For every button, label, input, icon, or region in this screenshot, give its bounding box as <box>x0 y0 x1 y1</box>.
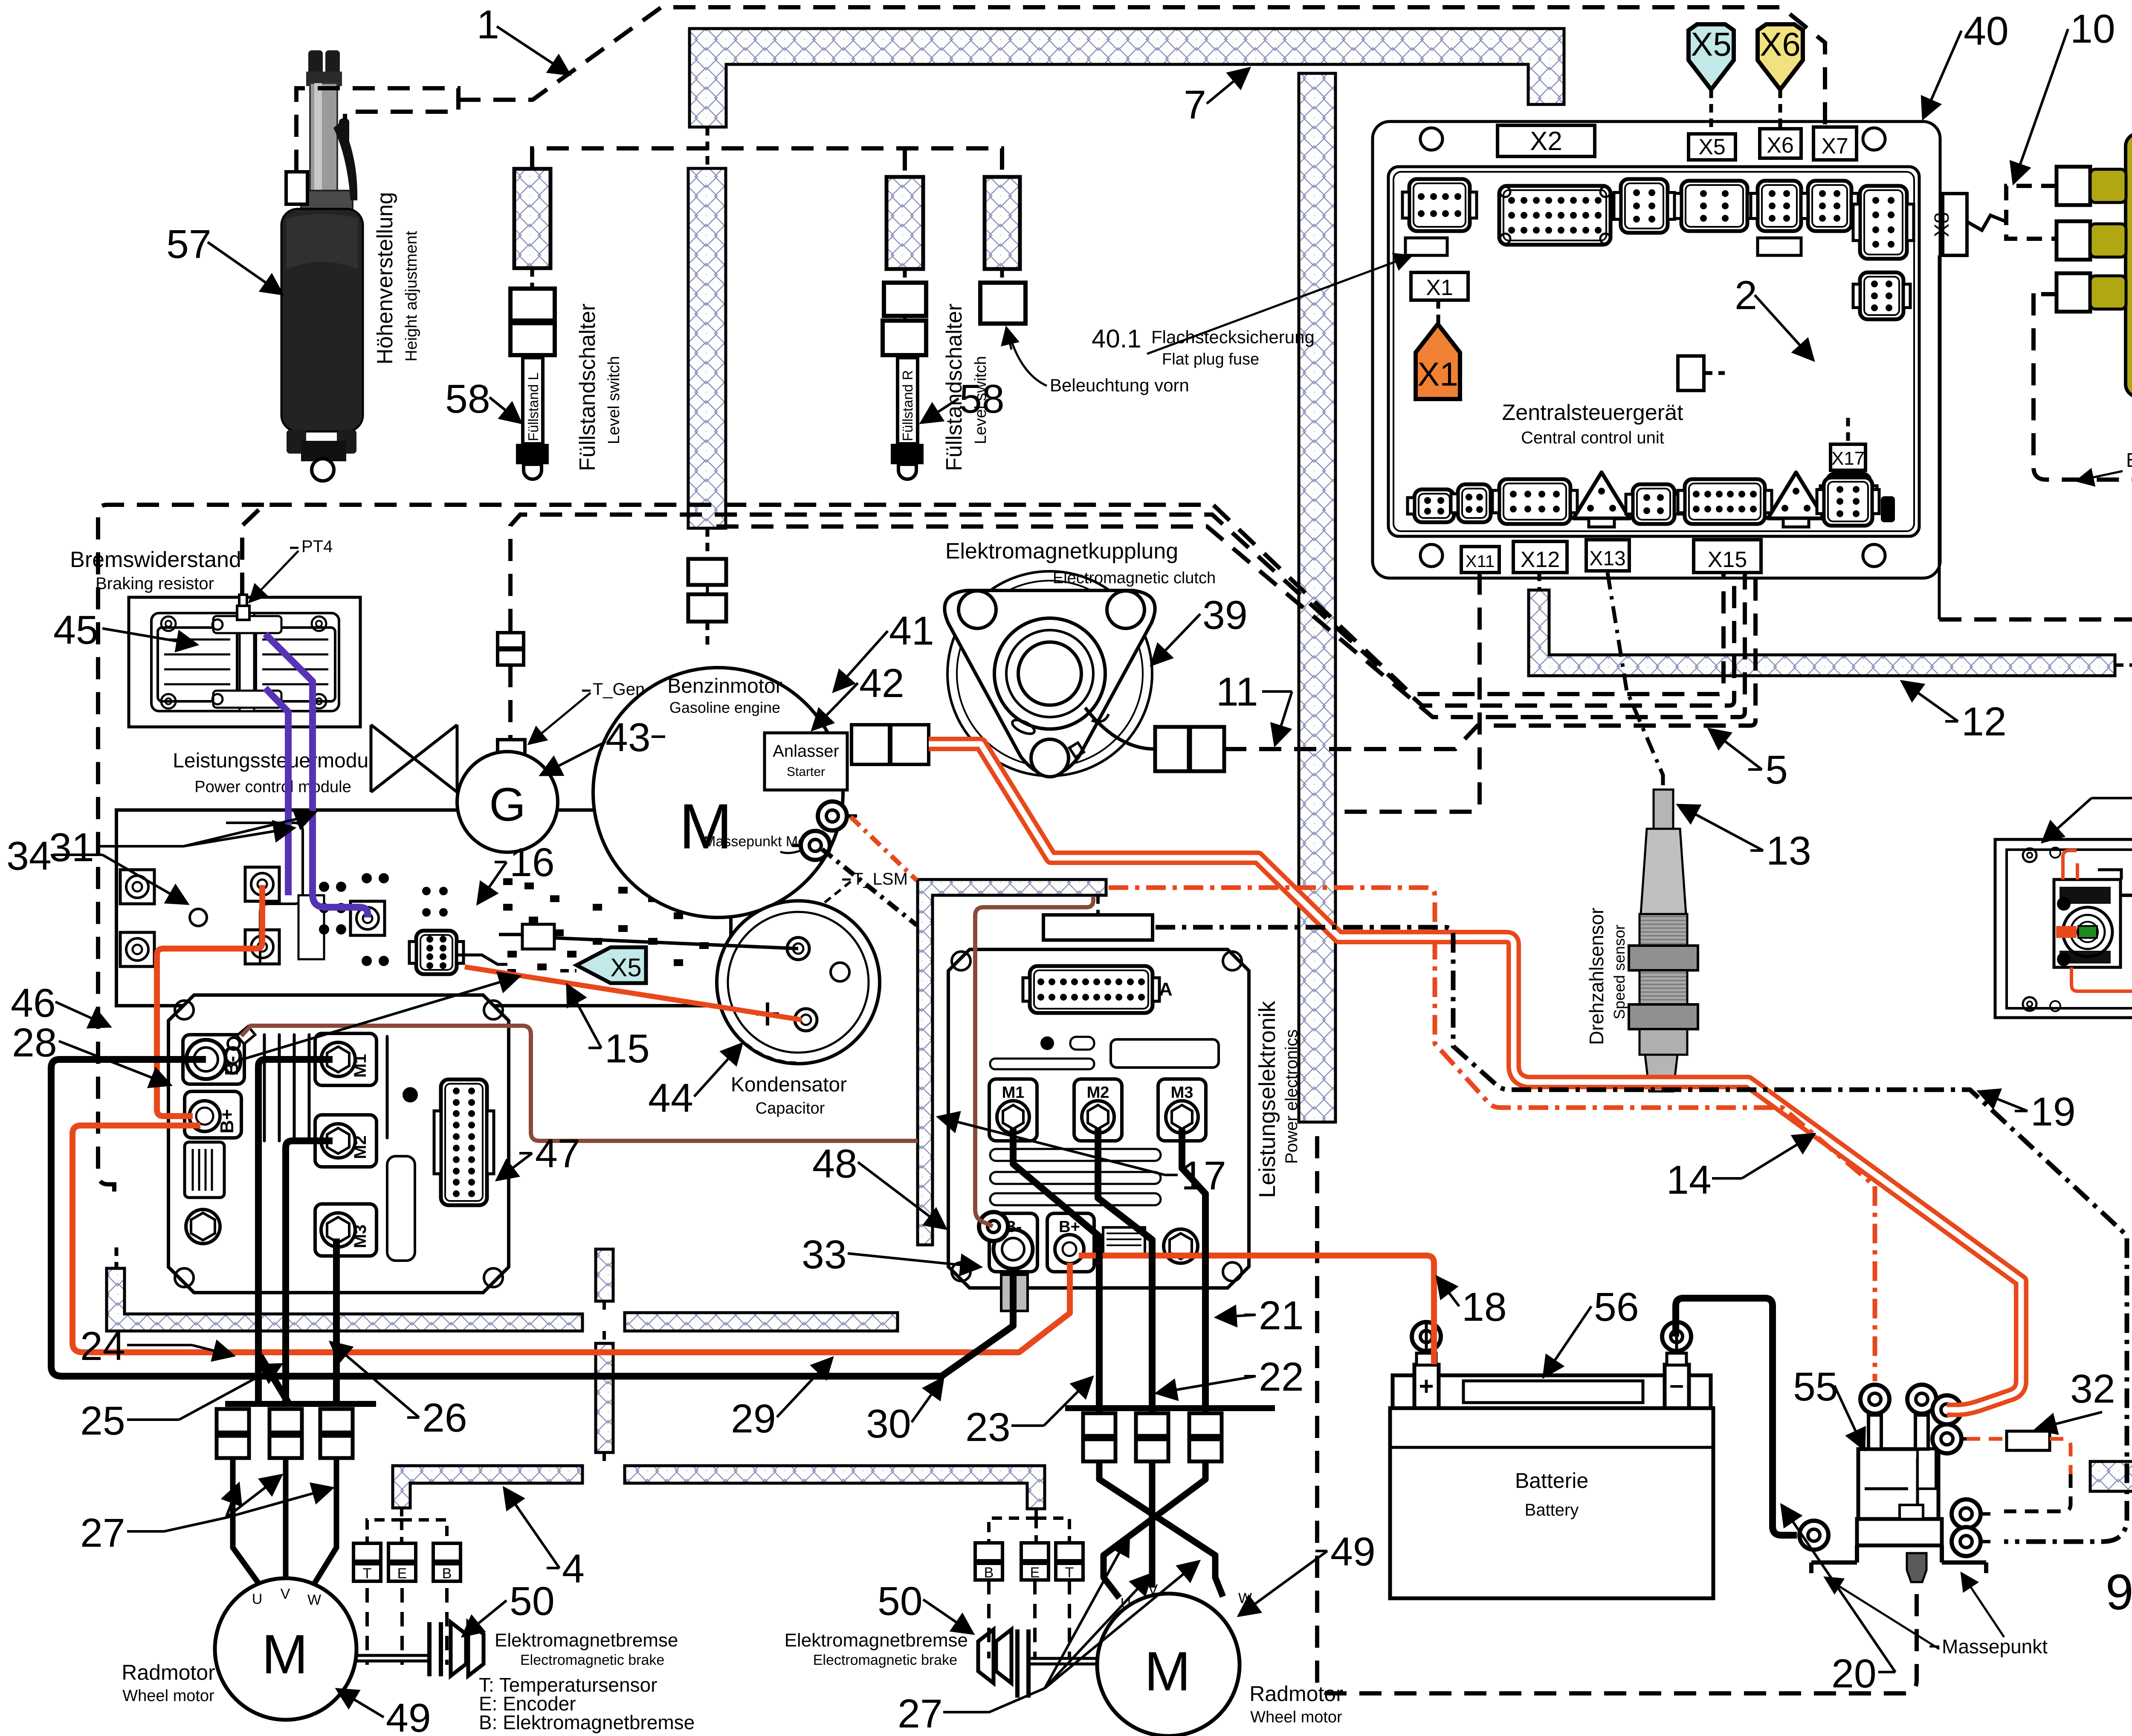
X8 label box <box>1943 194 1967 255</box>
level switch R body <box>884 283 926 316</box>
svg-text:Wheel motor: Wheel motor <box>122 1687 214 1705</box>
wire X11 to conduit <box>1335 573 1480 812</box>
svg-text:39: 39 <box>1202 593 1248 638</box>
svg-text:Kondensator: Kondensator <box>731 1073 847 1096</box>
svg-text:Bremswiderstand: Bremswiderstand <box>70 547 241 572</box>
svg-text:12: 12 <box>1961 699 2007 744</box>
anlasser starter 42 <box>765 733 847 790</box>
coupling bowtie <box>371 725 457 792</box>
svg-text:Battery: Battery <box>1525 1501 1579 1519</box>
svg-text:B: B <box>984 1565 994 1581</box>
svg-text:56: 56 <box>1594 1285 1639 1330</box>
svg-text:X17: X17 <box>1831 448 1865 469</box>
left wheel motor 49 <box>215 1578 356 1720</box>
fuse 9 hatched <box>517 958 560 984</box>
central control unit 40 <box>1373 122 1940 578</box>
wire orange from battery plus <box>1079 1256 1434 1364</box>
svg-text:X12: X12 <box>1521 547 1560 572</box>
wire black dashed fuse to ring3 <box>2004 1474 2071 1511</box>
right motor bus bar <box>1065 1405 1275 1411</box>
wire X13 dash-dot to speed sensor <box>1608 573 1663 790</box>
wire 1 dashed route from actuator to unit <box>296 88 458 172</box>
left motor bus bar <box>225 1401 376 1407</box>
svg-text:7: 7 <box>1184 82 1206 127</box>
svg-text:14: 14 <box>1666 1157 1712 1203</box>
svg-text:X15: X15 <box>1708 547 1747 572</box>
2 chain small box <box>1678 356 1704 391</box>
svg-text:9: 9 <box>222 1038 244 1083</box>
svg-text:Benzinmotor: Benzinmotor <box>667 675 782 697</box>
svg-text:Füllstand L: Füllstand L <box>525 373 541 441</box>
wire X12 link <box>1538 573 1541 590</box>
wire black T_LSM capacitor <box>499 933 522 936</box>
wire orange dash-dot 17 <box>851 817 917 880</box>
crossing wires into right motor <box>1099 1461 1223 1597</box>
svg-text:43: 43 <box>605 715 651 760</box>
svg-text:26: 26 <box>422 1395 467 1441</box>
svg-text:W: W <box>1238 1590 1252 1606</box>
svg-text:M1: M1 <box>1002 1084 1025 1102</box>
B E T boxes right <box>975 1543 1002 1561</box>
controller 47 <box>168 995 509 1293</box>
T E B left dashed bus <box>367 1520 447 1543</box>
svg-text:Braking resistor: Braking resistor <box>96 574 214 593</box>
svg-text:23: 23 <box>965 1405 1011 1450</box>
level switch bus <box>532 148 1002 177</box>
svg-text:Flat plug fuse: Flat plug fuse <box>1162 350 1259 368</box>
X6 pentagon yellow <box>1758 24 1803 90</box>
svg-text:4: 4 <box>562 1546 585 1591</box>
svg-text:X13: X13 <box>1589 547 1625 570</box>
svg-text:X1: X1 <box>1426 275 1453 300</box>
svg-text:M3: M3 <box>1171 1084 1193 1102</box>
wire bus A from PT4 <box>242 505 1724 694</box>
left motor connector boxes <box>217 1409 249 1432</box>
svg-text:Level switch: Level switch <box>605 356 623 444</box>
svg-text:Batterie: Batterie <box>1515 1469 1588 1493</box>
brake right 50 mirrored <box>978 1629 1011 1683</box>
component 54 <box>1995 839 2132 1018</box>
X17 chain <box>1831 444 1865 470</box>
svg-text:Elektromagnetbremse: Elektromagnetbremse <box>495 1630 678 1651</box>
svg-text:9600241 Kawa: 9600241 Kawa <box>2106 1564 2132 1620</box>
X5 X6 X1 X17 links <box>1709 90 1713 133</box>
actuator connector box <box>286 172 307 204</box>
svg-text:Electromagnetic brake: Electromagnetic brake <box>520 1652 664 1668</box>
wires into left motor <box>233 1458 259 1584</box>
svg-text:M: M <box>1144 1640 1191 1702</box>
svg-text:Electromagnetic clutch: Electromagnetic clutch <box>1053 569 1216 587</box>
svg-text:X5: X5 <box>610 953 641 982</box>
conduit 4 lower right bar with leg <box>625 1466 1045 1509</box>
svg-text:49: 49 <box>1330 1529 1376 1574</box>
svg-text:Höhenverstellung: Höhenverstellung <box>373 192 397 365</box>
wire orange 28 module to B+ <box>157 885 262 1116</box>
X5 pentagon cyan <box>1689 24 1734 90</box>
svg-text:Starter: Starter <box>787 765 825 779</box>
svg-text:M2: M2 <box>351 1135 370 1159</box>
wire antenna link dashed <box>2034 292 2057 296</box>
wire purple 1 from braking resistor <box>265 634 368 917</box>
svg-text:T: T <box>1065 1565 1074 1581</box>
level switch R hatched <box>886 177 923 269</box>
svg-text:Drehzahlsensor: Drehzahlsensor <box>1585 908 1608 1045</box>
clutch link boxes <box>1155 727 1189 771</box>
clutch 39 <box>947 571 1152 776</box>
svg-text:27: 27 <box>898 1691 943 1736</box>
actuator 57 height adjustment <box>308 50 323 84</box>
vertical conduit center <box>1299 73 1335 1122</box>
svg-text:Central control unit: Central control unit <box>1521 428 1664 447</box>
wire X6 long dashed left <box>98 505 264 1192</box>
level switch L body <box>510 289 555 321</box>
receiver 51 yellow <box>2126 133 2132 397</box>
small pin top left of 47 <box>237 1026 255 1044</box>
svg-text:T: T <box>363 1565 372 1582</box>
svg-text:25: 25 <box>80 1398 125 1444</box>
svg-text:X5: X5 <box>1691 25 1731 63</box>
wire orange dashed fuse 32 link <box>1967 1439 2071 1474</box>
wire orange 29 B+47 to B+48 long <box>72 1126 1070 1352</box>
unit 48 power electronics <box>948 949 1249 1288</box>
svg-text:E: E <box>397 1565 407 1582</box>
svg-text:58: 58 <box>959 376 1005 422</box>
conduit 4 center column lower <box>596 1343 613 1452</box>
svg-text:Capacitor: Capacitor <box>756 1099 825 1117</box>
wire links conduit7 column bottom <box>706 528 710 559</box>
svg-text:58: 58 <box>445 376 490 422</box>
svg-text:30: 30 <box>866 1401 911 1447</box>
svg-text:11: 11 <box>1216 669 1258 715</box>
wire orange double starter to relay <box>929 744 2021 1410</box>
svg-text:46: 46 <box>11 981 56 1026</box>
54 internal wires <box>2063 851 2077 880</box>
svg-text:27: 27 <box>80 1510 125 1556</box>
conduit between 47 and 48 <box>918 880 1106 1245</box>
conduit 4 right upper bar <box>625 1313 898 1331</box>
svg-text:B: Elektromagnetbremse: B: Elektromagnetbremse <box>479 1711 695 1733</box>
svg-text:M2: M2 <box>1087 1084 1109 1102</box>
svg-text:E: E <box>1030 1565 1040 1581</box>
svg-text:M1: M1 <box>351 1054 370 1078</box>
power control module 34 <box>116 810 731 1006</box>
svg-text:V: V <box>281 1586 290 1602</box>
wire brown 47 to 48 B- <box>241 1026 918 1141</box>
wires 48 M1 M2 M3 down with crossing <box>1013 1129 1099 1424</box>
svg-text:Füllstand R: Füllstand R <box>900 370 915 441</box>
svg-text:40.1: 40.1 <box>1092 324 1141 353</box>
conduit 12 with X12 leg <box>1529 590 2115 676</box>
wire 11 from clutch <box>1224 573 1755 749</box>
wire bus B from T_Gen <box>510 515 1734 706</box>
wire black dash-dot ground bus <box>822 849 917 925</box>
svg-text:32: 32 <box>2070 1366 2115 1412</box>
svg-text:Leistungssteuermodul: Leistungssteuermodul <box>173 749 373 772</box>
bestandteil funkanlage dashed boundary <box>2034 293 2132 480</box>
svg-text:X8: X8 <box>1931 212 1953 237</box>
svg-text:19: 19 <box>2031 1089 2076 1134</box>
X1 label box <box>1411 272 1468 300</box>
svg-text:Füllstandschalter: Füllstandschalter <box>575 304 600 471</box>
svg-text:X6: X6 <box>1767 133 1794 158</box>
wire black 30 B-47 to B-48 long <box>51 1059 1013 1376</box>
svg-text:42: 42 <box>859 661 904 706</box>
svg-text:PT4: PT4 <box>301 537 333 556</box>
svg-text:G: G <box>489 778 526 831</box>
svg-text:15: 15 <box>605 1026 650 1071</box>
svg-text:5: 5 <box>1765 747 1788 793</box>
top row connectors <box>1409 179 1470 231</box>
X1 orange pentagon <box>1416 324 1460 399</box>
X5 hexagon small cyan <box>576 947 646 983</box>
relay 55 <box>1858 1449 1938 1519</box>
svg-text:47: 47 <box>535 1131 580 1176</box>
svg-text:Massepunkt: Massepunkt <box>1942 1635 2048 1658</box>
wire ground dashed below conduit to massepunkt <box>1317 1136 1917 1693</box>
svg-text:17: 17 <box>1181 1153 1226 1198</box>
svg-text:Elektromagnetkupplung: Elektromagnetkupplung <box>945 539 1178 564</box>
svg-text:A: A <box>1159 979 1173 1000</box>
generator G 43 <box>457 752 558 852</box>
svg-text:T_Gen: T_Gen <box>593 680 645 699</box>
fuse 32 <box>2007 1431 2050 1450</box>
wire purple 2 from braking resistor <box>265 688 288 895</box>
massepunkt plug <box>1907 1553 1926 1582</box>
svg-text:X11: X11 <box>1466 552 1495 571</box>
brake left 50 <box>429 1622 441 1676</box>
X7 label box <box>1813 127 1857 160</box>
wire link conduit7 leg <box>706 127 710 168</box>
conduit 4 lower left L <box>393 1466 582 1508</box>
braking resistor 45 <box>129 597 360 727</box>
bottom label boxes <box>1461 547 1499 573</box>
svg-text:Radmotor: Radmotor <box>122 1661 215 1684</box>
svg-text:13: 13 <box>1766 828 1811 874</box>
svg-text:Elektromagnetbremse: Elektromagnetbremse <box>785 1630 968 1651</box>
svg-text:W: W <box>307 1592 321 1608</box>
svg-text:B+: B+ <box>217 1109 238 1133</box>
svg-text:X6: X6 <box>1760 25 1800 63</box>
svg-text:1: 1 <box>477 2 499 47</box>
svg-text:34: 34 <box>6 833 52 879</box>
svg-text:21: 21 <box>1259 1293 1304 1338</box>
conduit links column 4 <box>603 1301 606 1313</box>
svg-text:41: 41 <box>889 608 934 654</box>
svg-text:Speed sensor: Speed sensor <box>1611 925 1628 1019</box>
svg-text:Electromagnetic brake: Electromagnetic brake <box>813 1652 957 1668</box>
svg-text:29: 29 <box>731 1396 776 1441</box>
svg-text:Anlasser: Anlasser <box>773 742 839 761</box>
right motor connector boxes <box>1083 1413 1115 1436</box>
svg-text:45: 45 <box>53 608 98 653</box>
conduit 7 top bar and left leg <box>689 29 1564 127</box>
T_Gen boxes <box>498 633 524 648</box>
svg-text:18: 18 <box>1462 1285 1507 1330</box>
svg-text:20: 20 <box>1831 1651 1877 1696</box>
svg-text:M3: M3 <box>351 1224 370 1248</box>
lighting connector box <box>980 283 1025 324</box>
conduit 4 center column upper <box>596 1249 613 1301</box>
conduit 2 <box>1725 365 1855 416</box>
svg-text:24: 24 <box>80 1324 125 1369</box>
svg-text:48: 48 <box>812 1141 857 1186</box>
svg-text:B: B <box>442 1565 452 1582</box>
svg-text:–: – <box>1669 1370 1683 1399</box>
svg-text:Height adjustment: Height adjustment <box>403 231 420 362</box>
svg-text:Bestandteil Funkanlage: Bestandteil Funkanlage <box>2126 449 2132 471</box>
speed sensor 13 <box>1654 790 1673 829</box>
svg-text:16: 16 <box>510 840 555 885</box>
wire X8 solid and PT3 dashed to fan <box>1938 255 1941 619</box>
svg-text:M: M <box>679 790 733 862</box>
level switch links small <box>530 268 534 289</box>
svg-text:31: 31 <box>49 825 94 870</box>
svg-text:33: 33 <box>802 1232 847 1277</box>
wire 10 bracket dashed <box>2006 186 2057 239</box>
svg-text:49: 49 <box>386 1695 431 1736</box>
svg-text:10: 10 <box>2070 6 2115 52</box>
svg-text:50: 50 <box>878 1579 923 1624</box>
bottom row connectors <box>1414 489 1454 522</box>
svg-text:Power electronics: Power electronics <box>1282 1029 1301 1164</box>
lighting fuse hatched <box>985 177 1020 269</box>
wire orange 15 module to capacitor <box>465 967 802 1020</box>
svg-text:X7: X7 <box>1821 134 1848 159</box>
wire battery minus to relay <box>1676 1298 1797 1535</box>
X2 label box <box>1498 125 1595 156</box>
svg-text:Power control module: Power control module <box>194 778 351 796</box>
wires 47 M1 M2 M3 down to left motor <box>258 1059 333 1404</box>
fan feed line from conduit 12 <box>2115 663 2132 667</box>
svg-text:Wheel motor: Wheel motor <box>1250 1708 1342 1726</box>
svg-text:U: U <box>252 1591 263 1607</box>
svg-text:28: 28 <box>12 1020 57 1065</box>
svg-text:M: M <box>262 1623 308 1685</box>
level switch L hatched <box>514 169 550 268</box>
conduit 6 lower bar column foot <box>2090 1259 2132 1491</box>
X6 label box <box>1760 129 1801 158</box>
svg-text:X5: X5 <box>1698 135 1726 159</box>
PT4 connector <box>237 606 249 620</box>
receiver connectors <box>2057 167 2090 205</box>
svg-text:44: 44 <box>648 1076 693 1121</box>
svg-text:40: 40 <box>1964 9 2009 54</box>
starter ring terminals <box>818 801 847 830</box>
svg-text:57: 57 <box>166 222 211 267</box>
battery 56 <box>1390 1408 1713 1598</box>
svg-text:50: 50 <box>510 1579 555 1624</box>
svg-text:Beleuchtung vorn: Beleuchtung vorn <box>1050 375 1189 395</box>
svg-text:+: + <box>1419 1372 1434 1400</box>
X5 label box <box>1689 134 1735 160</box>
wire bus C <box>716 527 1745 717</box>
right wheel motor 49 <box>1097 1594 1240 1736</box>
conduit 4 left from X6 <box>107 1268 582 1331</box>
T E B boxes left <box>353 1543 381 1561</box>
svg-text:X2: X2 <box>1530 127 1562 156</box>
svg-text:Leistungselektronik: Leistungselektronik <box>1254 1001 1280 1198</box>
svg-text:22: 22 <box>1259 1354 1304 1400</box>
svg-text:Zentralsteuergerät: Zentralsteuergerät <box>1502 400 1683 425</box>
svg-text:X1: X1 <box>1417 355 1458 393</box>
svg-text:55: 55 <box>1793 1364 1838 1409</box>
T E B right dashed bus <box>989 1518 1069 1543</box>
engine M 41 circle <box>593 668 843 917</box>
svg-text:Gasoline engine: Gasoline engine <box>669 699 780 716</box>
capacitor 44 <box>717 901 880 1064</box>
svg-text:2: 2 <box>1735 273 1757 318</box>
